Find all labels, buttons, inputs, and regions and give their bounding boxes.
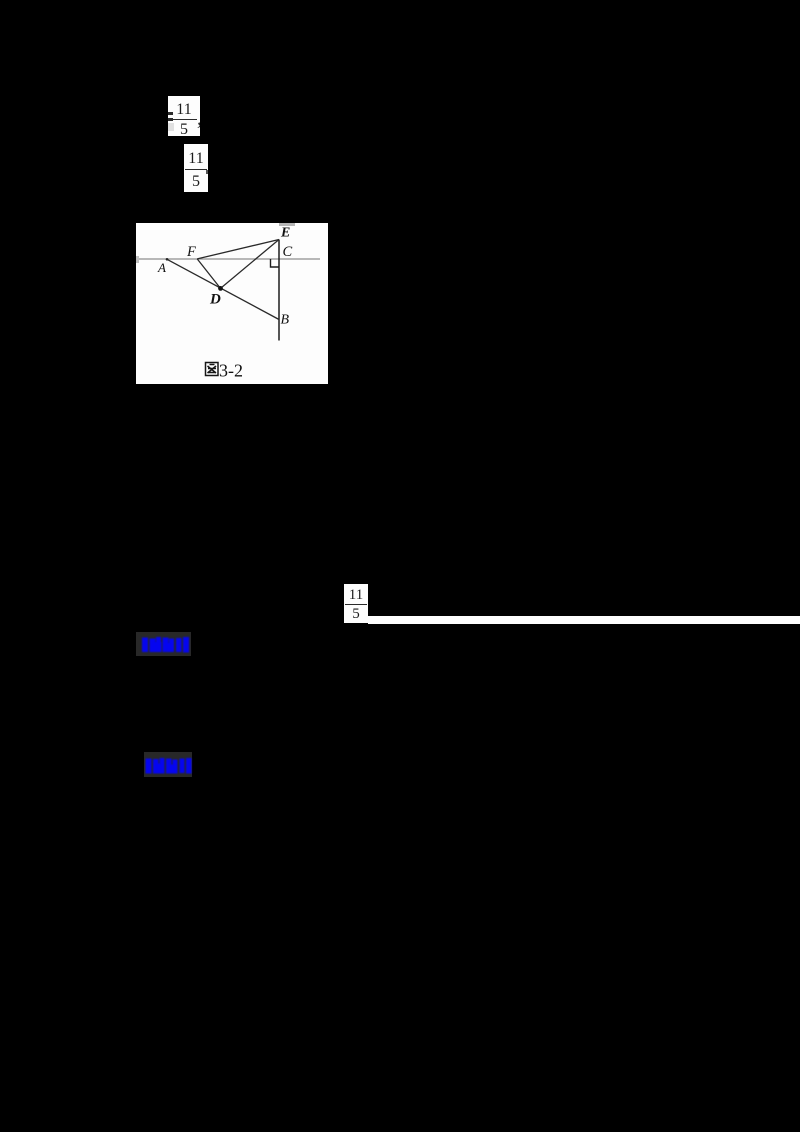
geometry figure image (图3-2) (136, 223, 328, 384)
svg-text:A: A (157, 260, 166, 275)
blue label 1 (136, 632, 191, 656)
line F to E (197, 240, 279, 259)
svg-text:D: D (209, 292, 221, 308)
comma at right (198, 109, 203, 130)
svg-text:E: E (280, 226, 290, 241)
glyph mass (145, 759, 151, 774)
denominator 5 (168, 122, 200, 138)
caption 图 glyph (drawn) (206, 363, 219, 376)
fraction block 1: = 11/5 , (168, 96, 200, 136)
horizontal line AC extended (137, 258, 320, 260)
white strip to right margin (368, 616, 800, 624)
svg-text:3-2: 3-2 (219, 361, 243, 381)
svg-text:F: F (186, 244, 196, 260)
numerator 11 (168, 102, 200, 118)
fraction bar (172, 119, 197, 120)
point A dot (166, 258, 169, 261)
point D dot (218, 286, 223, 291)
svg-text:C: C (283, 244, 293, 260)
glyph mass (142, 638, 148, 653)
gray patch at line start (136, 256, 139, 263)
svg-text:B: B (281, 313, 290, 328)
right angle mark at C (271, 259, 280, 267)
small dark tick right edge (206, 170, 208, 174)
gray smudge above E (279, 223, 295, 226)
blue label 2 (144, 752, 192, 777)
line E to D (221, 240, 280, 289)
gray smudge left (168, 123, 174, 131)
fraction block 3: 11/5 with trailing white strip (344, 584, 368, 623)
vertical line E-C-B extended (278, 240, 280, 341)
line F to D (197, 259, 220, 289)
fraction block 2: 11/5 (184, 144, 208, 192)
equals sign (clipped at left edge) (168, 112, 173, 115)
line A through D to B (167, 259, 279, 319)
